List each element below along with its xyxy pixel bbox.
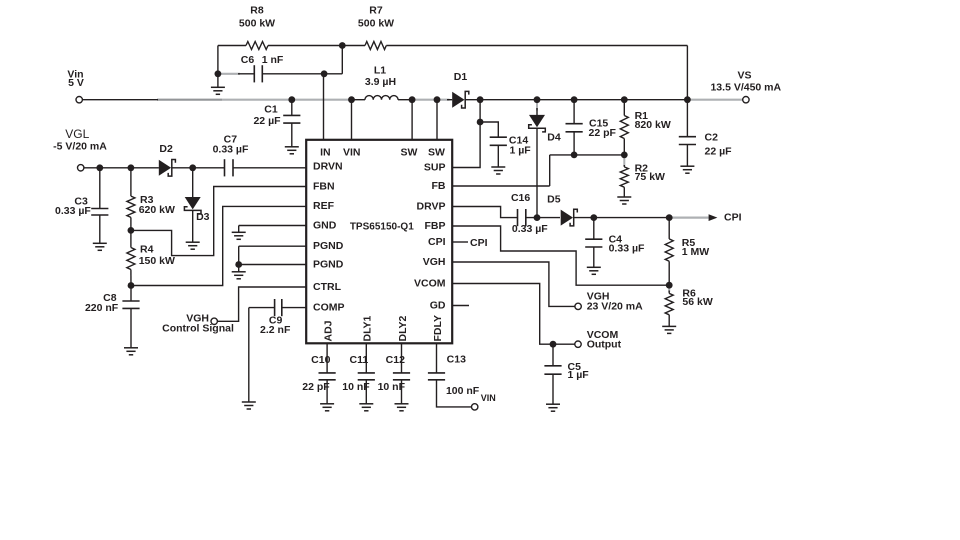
svg-text:CTRL: CTRL (313, 281, 342, 293)
svg-text:SW: SW (428, 146, 445, 158)
svg-text:FB: FB (432, 180, 446, 192)
svg-text:23 V/20 mA: 23 V/20 mA (587, 300, 643, 312)
svg-text:FBN: FBN (313, 180, 335, 192)
svg-text:1 MW: 1 MW (682, 246, 710, 258)
svg-text:1 µF: 1 µF (568, 369, 590, 381)
svg-text:220 nF: 220 nF (85, 302, 119, 314)
svg-text:D5: D5 (547, 194, 561, 206)
svg-text:0.33 µF: 0.33 µF (609, 242, 645, 254)
svg-text:D3: D3 (196, 211, 210, 223)
svg-text:GD: GD (430, 299, 446, 311)
svg-text:1 µF: 1 µF (510, 145, 532, 157)
svg-text:10 nF: 10 nF (378, 381, 406, 393)
svg-text:-5 V/20 mA: -5 V/20 mA (53, 141, 107, 153)
svg-text:0.33 µF: 0.33 µF (512, 223, 548, 235)
svg-text:13.5 V/450 mA: 13.5 V/450 mA (710, 81, 781, 93)
svg-text:SW: SW (401, 146, 418, 158)
svg-text:0.33 µF: 0.33 µF (213, 143, 249, 155)
svg-text:Output: Output (587, 339, 622, 351)
svg-text:C13: C13 (447, 353, 466, 365)
svg-text:75 kW: 75 kW (635, 171, 665, 183)
svg-text:DRVN: DRVN (313, 160, 343, 172)
svg-text:C10: C10 (311, 354, 330, 366)
svg-text:C16: C16 (511, 192, 530, 204)
svg-text:DRVP: DRVP (417, 200, 446, 212)
svg-text:DLY2: DLY2 (397, 315, 409, 341)
svg-text:5 V: 5 V (68, 77, 84, 89)
svg-text:D4: D4 (547, 132, 561, 144)
svg-text:C11: C11 (350, 354, 369, 366)
svg-text:VIN: VIN (343, 146, 361, 158)
svg-text:GND: GND (313, 219, 337, 231)
svg-text:SUP: SUP (424, 161, 446, 173)
svg-text:DLY1: DLY1 (362, 315, 374, 341)
svg-text:22 pF: 22 pF (589, 127, 617, 139)
svg-text:C1: C1 (264, 104, 278, 116)
svg-text:L1: L1 (374, 65, 386, 77)
svg-text:CPI: CPI (428, 236, 446, 248)
svg-text:PGND: PGND (313, 258, 344, 270)
svg-text:2.2 nF: 2.2 nF (260, 324, 291, 336)
svg-text:10 nF: 10 nF (342, 381, 370, 393)
svg-text:500 kW: 500 kW (358, 18, 394, 30)
svg-text:0.33 µF: 0.33 µF (55, 205, 91, 217)
svg-text:TPS65150-Q1: TPS65150-Q1 (350, 222, 414, 233)
svg-text:IN: IN (320, 146, 331, 158)
svg-text:VCOM: VCOM (414, 277, 446, 289)
svg-text:REF: REF (313, 200, 335, 212)
svg-text:C6: C6 (241, 54, 255, 66)
svg-text:ADJ: ADJ (322, 320, 334, 341)
svg-text:820 kW: 820 kW (635, 119, 671, 131)
svg-text:VGH: VGH (423, 256, 446, 268)
svg-text:CPI: CPI (470, 237, 488, 249)
svg-text:22 µF: 22 µF (705, 146, 733, 158)
svg-text:Control Signal: Control Signal (162, 323, 234, 335)
svg-text:FDLY: FDLY (432, 315, 444, 341)
svg-text:D2: D2 (159, 143, 173, 155)
svg-text:R8: R8 (250, 5, 264, 17)
svg-text:100 nF: 100 nF (446, 385, 480, 397)
svg-text:FBP: FBP (425, 220, 446, 232)
svg-text:VS: VS (737, 70, 751, 82)
svg-text:R4: R4 (140, 243, 154, 255)
svg-text:22 pF: 22 pF (302, 381, 330, 393)
svg-text:22 µF: 22 µF (253, 115, 281, 127)
svg-text:PGND: PGND (313, 240, 344, 252)
svg-text:VGL: VGL (65, 127, 89, 141)
svg-text:C2: C2 (705, 132, 719, 144)
svg-text:VIN: VIN (481, 393, 496, 403)
svg-text:COMP: COMP (313, 301, 345, 313)
svg-text:56 kW: 56 kW (682, 296, 712, 308)
svg-text:R7: R7 (369, 5, 383, 17)
svg-text:CPI: CPI (724, 212, 742, 224)
svg-text:3.9 µH: 3.9 µH (365, 76, 396, 88)
svg-text:150 kW: 150 kW (139, 255, 175, 267)
svg-text:500 kW: 500 kW (239, 18, 275, 30)
svg-text:D1: D1 (454, 71, 468, 83)
svg-text:620 kW: 620 kW (139, 204, 175, 216)
svg-text:C12: C12 (386, 354, 405, 366)
svg-text:1 nF: 1 nF (262, 54, 284, 66)
